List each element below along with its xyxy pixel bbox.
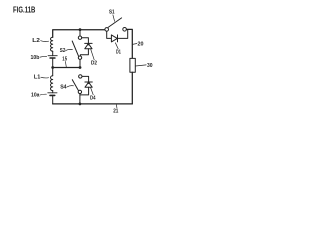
svg-text:30: 30 [147, 63, 153, 69]
wire battery 10b to mid node [52, 58, 54, 68]
battery 10a [48, 93, 57, 96]
leader 21 [115, 105, 118, 108]
leader D2 [91, 50, 94, 60]
leader S2 [66, 49, 73, 50]
wire right rail below resistor [131, 72, 133, 104]
switch S1 [105, 18, 127, 31]
svg-text:10a: 10a [31, 93, 40, 99]
resistor 30 (load box) [130, 58, 135, 72]
node dot mid right [79, 66, 82, 69]
svg-text:21: 21 [113, 109, 118, 115]
wire mid node to L1 [52, 68, 54, 76]
svg-text:20: 20 [138, 42, 144, 48]
diode D4 bypass loop [80, 76, 92, 95]
svg-text:15: 15 [62, 57, 67, 63]
wire L2 to battery 10b [52, 51, 54, 56]
svg-text:D1: D1 [116, 49, 121, 55]
leader D1 [115, 43, 118, 49]
svg-text:L1: L1 [34, 74, 41, 80]
svg-text:10b: 10b [31, 55, 41, 61]
svg-text:S2: S2 [60, 48, 66, 54]
leader 10a [40, 93, 46, 96]
wire from top-wire dot down to S2 [79, 30, 81, 36]
wire S1 right to right rail corner [126, 29, 132, 58]
inductor L1 [50, 76, 52, 91]
leader L2 [41, 40, 49, 43]
leader 20 [133, 43, 137, 46]
battery 10b [48, 56, 57, 58]
diode D1 bypass loop [107, 30, 128, 42]
switch S2 [72, 36, 82, 59]
wire top (node from L2 top to S1) [53, 30, 105, 38]
node dot left mid [51, 66, 54, 69]
switch S4 [72, 75, 82, 94]
leader 30 [136, 65, 147, 66]
wire battery 10a to bottom [52, 95, 54, 104]
svg-text:D4: D4 [90, 96, 96, 102]
leader 15 [64, 62, 67, 68]
leader S1 [113, 15, 115, 21]
svg-text:S1: S1 [109, 9, 115, 15]
leader D4 [91, 88, 94, 95]
leader L1 [41, 76, 49, 79]
node dot bottom [79, 103, 82, 106]
wire mid node 15 horizontal [53, 67, 80, 69]
svg-text:FIG.11B: FIG.11B [13, 5, 35, 15]
leader 10b [40, 55, 46, 58]
leader S4 [67, 86, 74, 87]
svg-text:S4: S4 [60, 85, 66, 91]
wire bottom rail 21 [53, 103, 133, 105]
node junction dot on top wire [79, 28, 82, 31]
svg-text:D2: D2 [91, 61, 97, 67]
inductor L2 [50, 37, 52, 51]
wire S4 bottom to bottom rail [79, 94, 81, 104]
svg-text:L2: L2 [32, 38, 40, 44]
diode D2 bypass loop [80, 38, 92, 56]
wire S2 bottom to mid dot [79, 59, 81, 67]
wire L1 to battery 10a [52, 91, 54, 93]
